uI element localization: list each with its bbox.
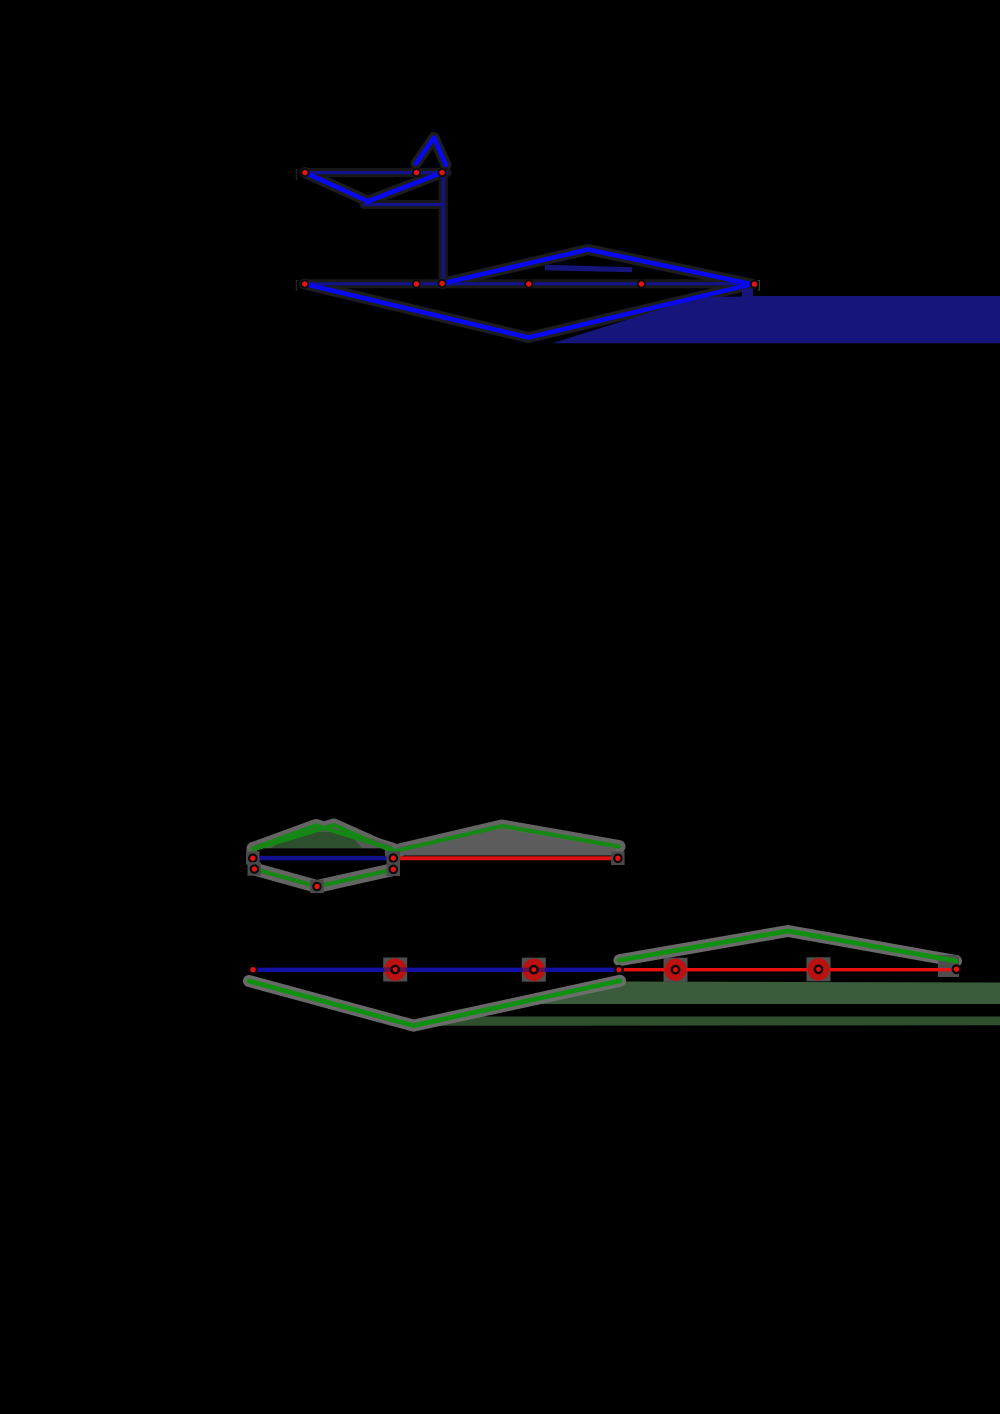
diamond upper edge bright blue: [442, 250, 752, 285]
dot mid left upper: [246, 851, 260, 865]
dark green lens between hats: [270, 832, 362, 848]
diamond lower edge bright blue: [305, 284, 752, 338]
dot mid bottom: [310, 880, 324, 894]
halo squares for ring markers: [938, 955, 959, 977]
halo arc: [393, 826, 619, 852]
tent bright blue: [416, 138, 446, 165]
dot mid center lower: [387, 863, 401, 877]
halo petal: [256, 870, 391, 887]
halo wavelet right: [620, 931, 957, 961]
dot mid center upper: [387, 851, 401, 865]
node dot main 3: [438, 279, 447, 288]
green petal: [256, 870, 391, 887]
node dot main tip: [750, 280, 759, 289]
svg-text:[: [: [295, 168, 298, 180]
mini axis navy line: [305, 171, 448, 174]
dark green wedge G1: [512, 982, 1000, 1005]
bottom end dots: [248, 965, 258, 975]
ring marker 2: [523, 959, 545, 981]
halo mini hat V: [305, 173, 442, 202]
middle navy interval line: [253, 856, 391, 860]
node dot main 4: [524, 279, 533, 288]
halo diamond upper edge: [442, 250, 752, 285]
node dot mini right: [438, 168, 447, 177]
dark green wedge G2: [414, 1017, 1000, 1026]
halo hat2: [253, 825, 392, 851]
node dot mini left: [300, 168, 309, 177]
ring marker 4: [807, 958, 829, 980]
node dot main 1: [300, 279, 309, 288]
vertical navy line: [442, 174, 445, 284]
node dot main 5: [637, 279, 646, 288]
bottom red interval line: [624, 968, 951, 971]
halo mini lower line: [364, 200, 444, 209]
black band above navy line: [257, 848, 385, 856]
halo diamond lower edge: [305, 284, 752, 338]
green hat1: [253, 826, 392, 850]
ring marker 1: [384, 958, 406, 980]
node dot main 2: [412, 279, 421, 288]
green hat2: [253, 825, 392, 851]
navy wedge fill right of diamond tip: [552, 289, 1000, 344]
green arc: [393, 826, 619, 852]
bottom navy interval line: [257, 968, 615, 972]
dot mid right end: [611, 852, 625, 866]
halo tent: [416, 138, 446, 165]
svg-text:[: [: [295, 279, 298, 291]
mini lower navy line: [364, 203, 444, 206]
halo wavelet left: [249, 981, 620, 1026]
halo mini axis line: [305, 168, 448, 177]
green wavelet left branch: [249, 981, 620, 1026]
navy under-apex band: [545, 265, 632, 272]
main axis navy line: [304, 282, 753, 285]
middle red interval line: [397, 856, 614, 860]
top figure node dots: [300, 168, 759, 289]
gray fill under hats: [254, 827, 392, 856]
halo hat1: [253, 826, 392, 850]
node dot mini mid: [412, 168, 421, 177]
green wavelet right branch: [620, 931, 957, 961]
gray fill under arc: [396, 829, 616, 856]
halo main axis line: [304, 279, 753, 288]
dot mid left lower: [248, 862, 262, 876]
mini hat V bright blue: [305, 173, 442, 202]
halo vertical line: [439, 174, 448, 284]
middle figure dots: [246, 851, 625, 893]
ring marker 3: [664, 959, 686, 981]
